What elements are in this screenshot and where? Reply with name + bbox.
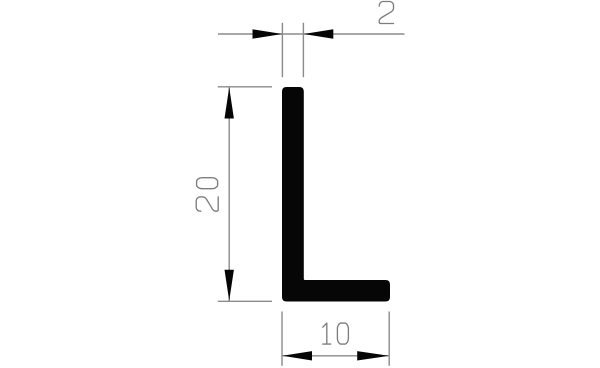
dim 2: left arrowhead [253, 29, 283, 38]
dim 10: dimension line [282, 355, 389, 357]
L-profile solid section [282, 87, 390, 302]
dim 20: dimension line [228, 87, 230, 301]
dim 20: text "20" rotated [196, 197, 218, 211]
dim 20: extension line bottom [218, 300, 272, 302]
dim 2: dimension line [218, 33, 405, 35]
dim 20: extension line top [218, 86, 272, 88]
dim 2: text "2" [379, 2, 393, 24]
dim 10: text "10" [323, 323, 331, 344]
dim 2: extension line right [302, 23, 304, 77]
dim 20: top arrowhead [225, 87, 234, 118]
dim 10: extension line right [388, 312, 390, 366]
dim 2: extension line left [281, 23, 283, 77]
dim 20: bottom arrowhead [225, 270, 234, 301]
dim 10: right arrowhead [357, 351, 389, 360]
dim 10: left arrowhead [282, 351, 312, 360]
dim 2: right arrowhead [304, 29, 334, 38]
dim 10: extension line left [281, 312, 283, 366]
